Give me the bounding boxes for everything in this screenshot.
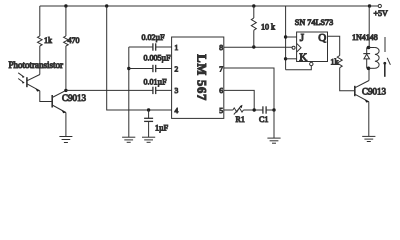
- wire 1k to phototransistor collector: [39, 46, 41, 75]
- node bus-pin2 junction: [127, 67, 130, 70]
- wire Q output: [328, 36, 340, 55]
- svg-text:7: 7: [219, 64, 223, 73]
- wire pin3 input line: [66, 89, 153, 91]
- clock wedge: [297, 43, 301, 52]
- node collector junction: [64, 89, 67, 92]
- ground (Q3 emitter): [362, 136, 375, 141]
- svg-text:1k: 1k: [331, 58, 339, 67]
- svg-text:1: 1: [175, 43, 179, 52]
- svg-text:0.005µF: 0.005µF: [144, 54, 172, 63]
- wire 10k lower: [253, 30, 255, 47]
- relay coil K1: [369, 48, 380, 69]
- wire pin2 line: [129, 68, 153, 70]
- node junction rail-470: [64, 4, 67, 7]
- svg-text:Q: Q: [318, 32, 326, 44]
- resistor R1 (variable): [233, 105, 244, 115]
- wire 1k branch upper: [39, 6, 41, 36]
- svg-text:4: 4: [175, 106, 179, 115]
- wire 10k upper: [253, 6, 255, 18]
- node R1-C1-pin6 junction: [253, 108, 256, 111]
- wire pin5 line left: [224, 109, 233, 111]
- transistor Q2 C9013 (left): [52, 90, 66, 113]
- node relay top junction: [367, 46, 371, 50]
- wire +5V top rail: [40, 5, 370, 7]
- wire clear return: [286, 66, 312, 70]
- ground (capacitor bus): [122, 137, 135, 142]
- capacitor 0.005uF: [153, 65, 156, 72]
- svg-text:SN 74LS73: SN 74LS73: [295, 18, 333, 27]
- flip-flop U2 74LS73 box: [297, 32, 328, 62]
- capacitor 0.01uF: [153, 87, 156, 94]
- wire Q2 emitter down: [65, 113, 67, 137]
- ground (Q2 emitter): [59, 137, 72, 143]
- wire K stub: [286, 58, 297, 60]
- IC U1 LM567 tone decoder box: [172, 37, 224, 118]
- wire J stub: [286, 36, 297, 38]
- svg-text:1N4148: 1N4148: [352, 33, 378, 42]
- svg-text:0.01µF: 0.01µF: [144, 78, 168, 87]
- capacitor C1: [263, 106, 266, 113]
- resistor R 1k (right): [337, 56, 342, 68]
- resistor R 10k: [251, 18, 256, 30]
- wire 470 branch upper: [65, 6, 67, 36]
- capacitor 1uF: [144, 110, 153, 137]
- diode D1 1N4148: [363, 48, 370, 69]
- wire pin6 to R1C1 node: [224, 90, 254, 110]
- svg-text:R1: R1: [236, 115, 245, 124]
- svg-text:1µF: 1µF: [155, 124, 169, 133]
- svg-text:J: J: [300, 32, 305, 44]
- node junction rail-10k: [252, 4, 255, 7]
- wire phototransistor emitter to Q2 base: [40, 91, 52, 102]
- phototransistor Q1: [18, 73, 40, 92]
- ground (1uF): [142, 137, 155, 142]
- clear bubble: [310, 62, 313, 65]
- wire capacitor bus vertical: [128, 47, 130, 137]
- capacitor 0.02uF: [153, 43, 156, 50]
- wire J-K tie vertical from rail: [285, 6, 287, 70]
- ground (C1): [267, 138, 280, 143]
- wire Vcc feed to pin4: [107, 6, 172, 110]
- wire relay branch vertical: [368, 6, 370, 48]
- svg-text:0.02µF: 0.02µF: [142, 33, 166, 42]
- wire R1 to C1: [243, 109, 263, 111]
- svg-text:C9013: C9013: [362, 87, 387, 97]
- wire Q3 emitter down: [368, 102, 370, 137]
- node C1-pin7-ground junction: [272, 108, 275, 111]
- wire pin8 clock line: [224, 46, 292, 48]
- svg-text:5: 5: [219, 106, 223, 115]
- node 10k-pin8 junction: [252, 45, 255, 48]
- svg-text:Phototransistor: Phototransistor: [9, 60, 64, 70]
- svg-text:C9013: C9013: [62, 93, 87, 103]
- node J junction: [284, 35, 287, 38]
- resistor R 1k (left): [38, 36, 43, 46]
- svg-text:+5V: +5V: [374, 9, 389, 18]
- svg-text:C1: C1: [259, 115, 268, 124]
- wire pin7 node to ground: [273, 110, 275, 138]
- node pin4-1uF junction: [147, 108, 150, 111]
- wire pin7 to C1 right: [224, 68, 274, 110]
- svg-text:8: 8: [219, 43, 223, 52]
- svg-text:2: 2: [175, 65, 179, 74]
- wire 1k to Q3 base: [340, 68, 355, 91]
- wire C1 to pin7 node: [266, 109, 274, 111]
- wire pin1 line: [129, 46, 153, 48]
- clock bubble: [292, 46, 295, 49]
- svg-text:LM 567: LM 567: [195, 54, 209, 101]
- svg-text:470: 470: [68, 36, 80, 45]
- relay switch contact: [383, 37, 390, 77]
- node K junction: [284, 57, 287, 60]
- svg-text:6: 6: [219, 86, 223, 95]
- node junction rail-relay: [368, 4, 371, 7]
- svg-text:10 k: 10 k: [261, 23, 275, 32]
- resistor R 470: [64, 36, 69, 46]
- svg-text:3: 3: [175, 86, 179, 95]
- +5V supply terminal: [370, 4, 381, 7]
- svg-text:K: K: [299, 51, 307, 63]
- node junction rail-Vcc feed: [105, 4, 108, 7]
- transistor Q3 C9013 (right): [355, 81, 369, 103]
- node relay bottom junction: [367, 67, 371, 71]
- svg-text:1k: 1k: [44, 36, 52, 45]
- wire 470 to collector node: [65, 46, 67, 90]
